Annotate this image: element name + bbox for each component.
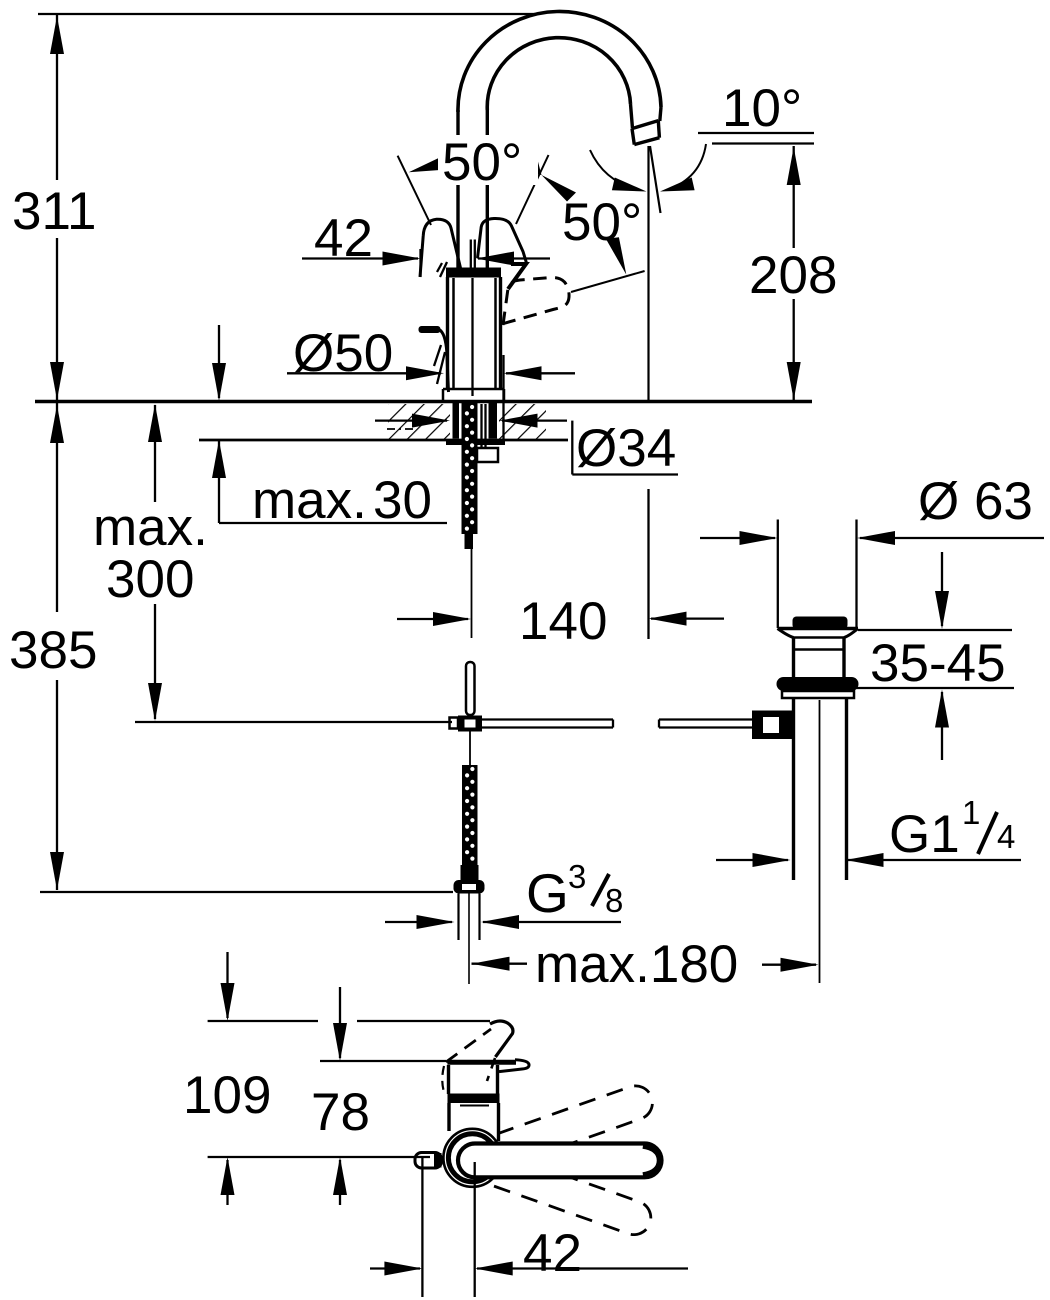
- svg-text:max.: max.: [93, 498, 208, 557]
- svg-text:max.180: max.180: [535, 935, 738, 994]
- svg-text:G: G: [526, 862, 569, 924]
- svg-text:311: 311: [12, 182, 97, 241]
- svg-text:Ø 63: Ø 63: [918, 472, 1033, 531]
- svg-text:78: 78: [311, 1083, 370, 1142]
- svg-text:109: 109: [183, 1066, 271, 1125]
- svg-text:Ø34: Ø34: [576, 419, 676, 478]
- svg-text:50°: 50°: [442, 133, 522, 192]
- svg-text:1: 1: [962, 794, 980, 831]
- svg-text:max.: max.: [252, 471, 367, 530]
- svg-text:42: 42: [314, 209, 373, 268]
- svg-text:300: 300: [106, 550, 194, 609]
- svg-text:50°: 50°: [562, 193, 642, 252]
- svg-text:140: 140: [519, 592, 607, 651]
- svg-text:35-45: 35-45: [870, 634, 1006, 693]
- svg-text:Ø50: Ø50: [293, 324, 393, 383]
- svg-text:4: 4: [997, 818, 1015, 855]
- svg-text:208: 208: [749, 246, 837, 305]
- svg-text:3: 3: [568, 858, 586, 895]
- svg-text:385: 385: [9, 621, 97, 680]
- svg-text:8: 8: [605, 882, 623, 919]
- svg-text:G1: G1: [889, 805, 960, 864]
- svg-text:30: 30: [373, 471, 432, 530]
- svg-text:10°: 10°: [722, 79, 802, 138]
- svg-text:42: 42: [523, 1224, 582, 1283]
